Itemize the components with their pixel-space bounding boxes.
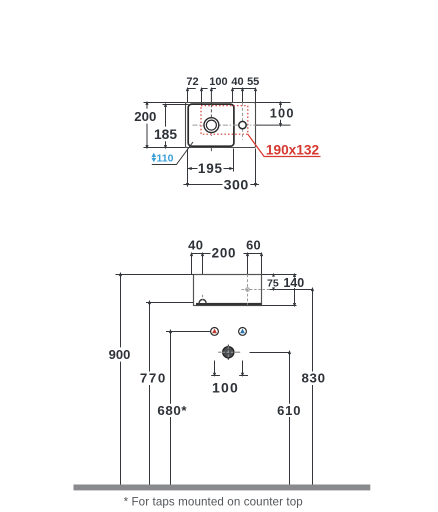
svg-text:140: 140	[283, 276, 304, 290]
svg-text:195: 195	[198, 161, 223, 176]
tap hole circle	[239, 121, 246, 128]
horizontal centerline top view	[193, 124, 258, 126]
tap centerline front	[247, 275, 249, 305]
svg-text:* For taps mounted on counter: * For taps mounted on counter top	[124, 496, 303, 509]
vertical centerline through drain	[210, 104, 212, 136]
dim 200 line	[146, 103, 148, 109]
waste drain front	[218, 345, 240, 360]
dim 195 extension lines	[187, 149, 189, 186]
svg-text:770: 770	[140, 371, 167, 386]
dim 185 line	[165, 105, 167, 127]
dim 770 line	[149, 303, 151, 372]
red leader with underline	[248, 134, 321, 156]
basin outer outline top view	[186, 103, 256, 148]
drain circle outer	[204, 118, 219, 133]
svg-text:200: 200	[212, 246, 236, 261]
svg-text:900: 900	[109, 347, 131, 362]
dim 140 bottom extension	[262, 305, 297, 307]
svg-text:830: 830	[301, 371, 325, 386]
dim 75 line	[273, 275, 275, 277]
dim 770 extension line	[146, 302, 194, 304]
svg-text:55: 55	[247, 76, 259, 88]
front top dimension chain line	[192, 253, 211, 255]
svg-text:185: 185	[154, 127, 177, 142]
svg-text:610: 610	[277, 403, 301, 418]
front chain arrows	[190, 252, 193, 256]
svg-text:40: 40	[231, 76, 243, 88]
basin front profile	[194, 275, 262, 306]
dim 100 between supplies	[214, 361, 216, 376]
top dimension chain line	[188, 88, 196, 90]
drain circle inner	[206, 120, 216, 130]
dim 75 140 top extension	[262, 274, 297, 276]
cold water valve	[239, 328, 247, 336]
tap line to 830	[270, 289, 313, 291]
vertical centerline through tap hole	[242, 103, 244, 140]
red cut-out rectangle 190x132	[201, 106, 248, 135]
dome centerline dashes	[202, 295, 204, 300]
dim 830 line	[312, 290, 314, 372]
dim 100 right extension lines	[256, 102, 291, 104]
top chain extension lines	[187, 89, 189, 103]
hot water valve	[211, 328, 219, 336]
svg-text:100: 100	[270, 106, 295, 121]
svg-text:60: 60	[246, 237, 261, 252]
dim 680 extension line	[166, 331, 211, 333]
svg-text:300: 300	[224, 178, 249, 194]
front chain extension lines	[191, 254, 193, 275]
dim 900 line	[120, 275, 122, 348]
110 up-down arrow glyph	[152, 154, 155, 162]
tap crosshair front	[246, 288, 250, 292]
svg-text:40: 40	[188, 237, 203, 252]
svg-text:200: 200	[134, 109, 156, 124]
svg-text:680*: 680*	[157, 403, 187, 418]
svg-text:75: 75	[267, 277, 279, 289]
dim 900 extension line	[116, 274, 194, 276]
basin bowl top view	[188, 104, 234, 146]
svg-text:110: 110	[157, 153, 174, 165]
dim 195 line	[188, 168, 198, 170]
floor bar	[74, 485, 371, 491]
svg-text:100: 100	[209, 76, 227, 88]
110 leader line	[152, 142, 193, 165]
svg-text:190x132: 190x132	[266, 142, 320, 157]
dim 140 line	[294, 275, 296, 278]
drain trap dome	[199, 300, 206, 303]
svg-text:100: 100	[212, 379, 239, 395]
dim 200 left extension lines	[144, 102, 186, 104]
dim 300 extension line right	[255, 149, 257, 186]
dim 610 line	[289, 353, 291, 404]
basin front bottom thick edge	[196, 303, 262, 305]
dim 300 line	[183, 184, 222, 186]
dim 680 line	[170, 332, 172, 404]
svg-text:72: 72	[186, 76, 198, 88]
dim 610 connector from drain	[250, 352, 290, 354]
dim 100 right line	[280, 103, 282, 108]
top chain arrows	[186, 87, 189, 91]
